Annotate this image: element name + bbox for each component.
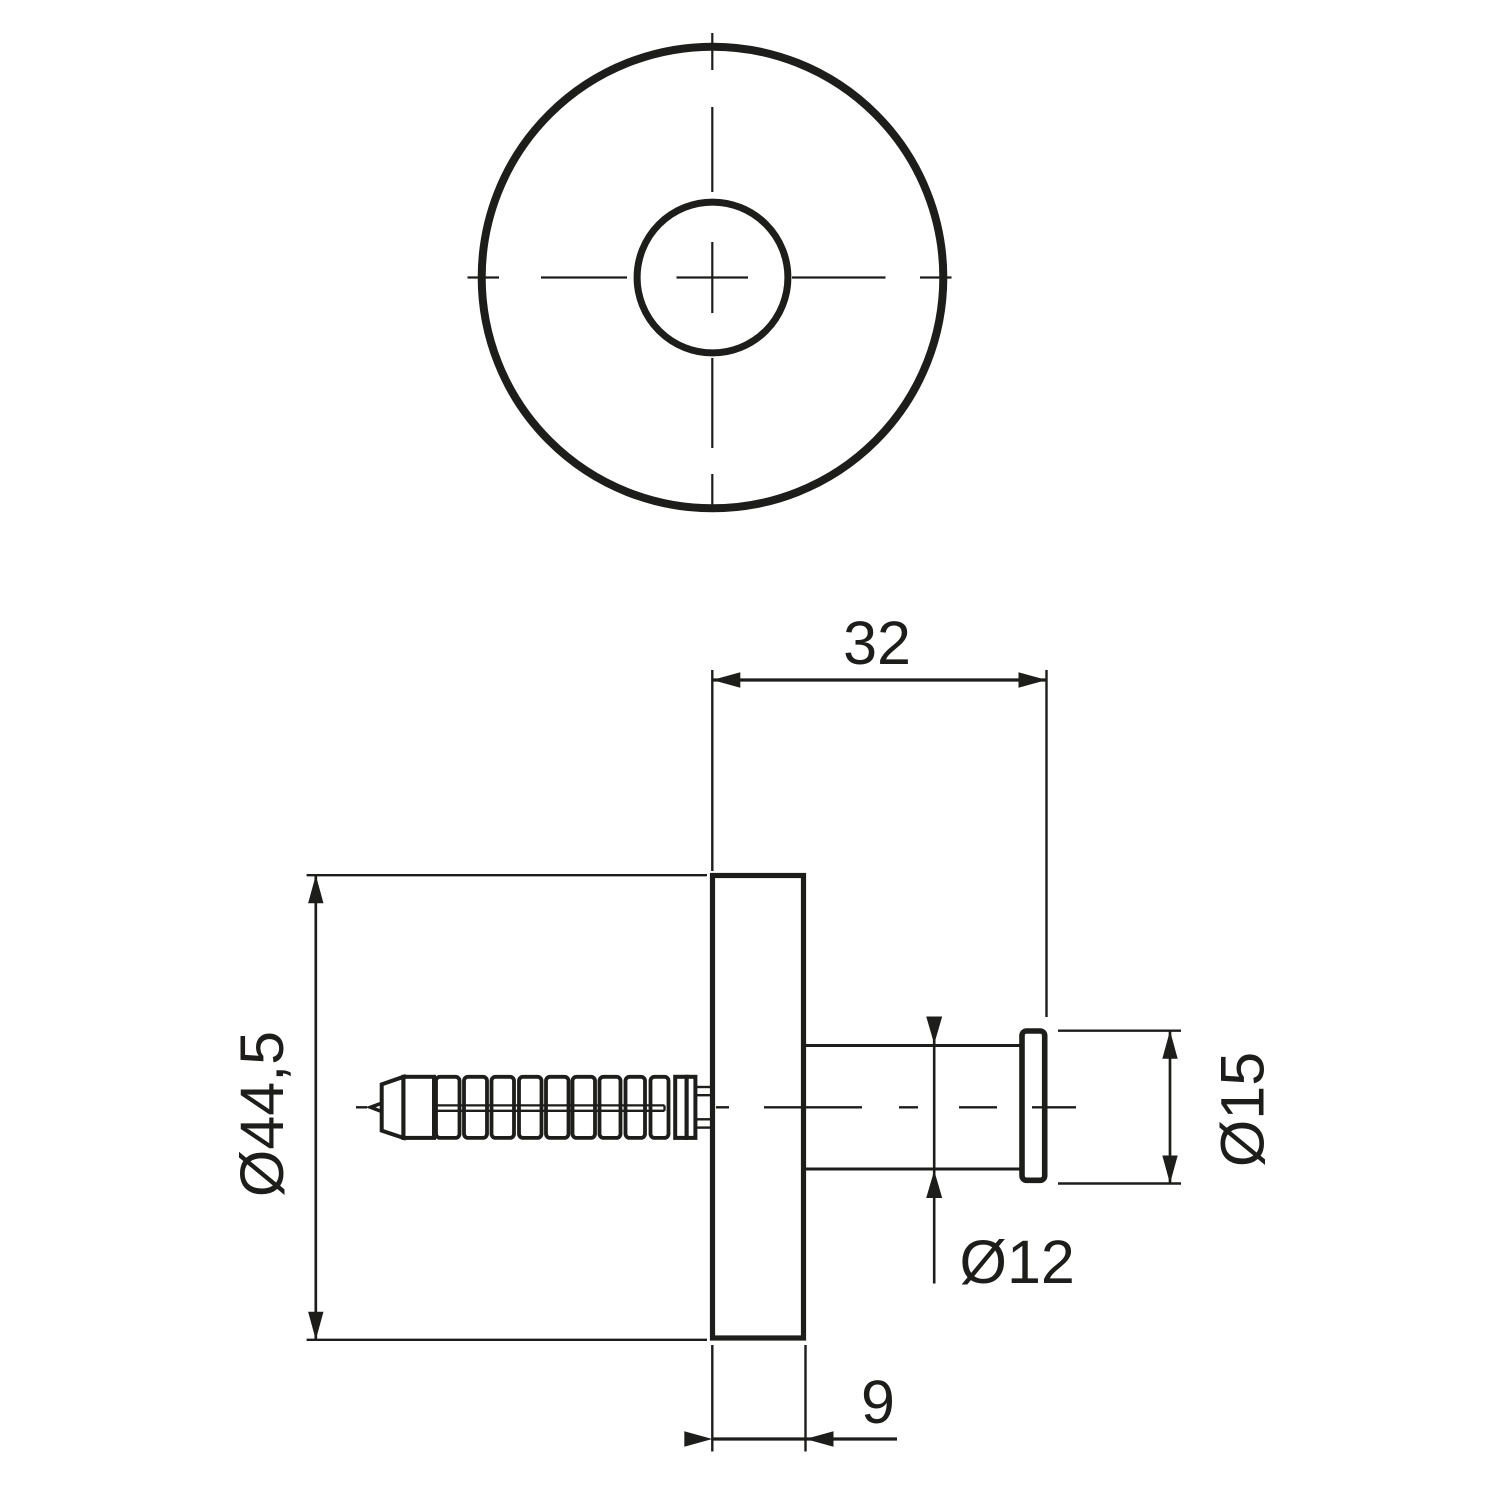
screw: thread block 1: [436, 1077, 460, 1138]
dimension D15: extension lines: [1058, 1031, 1181, 1184]
screw: thread block 3: [492, 1077, 515, 1138]
dimension D15: dimension line: [1169, 1031, 1172, 1184]
dimension D12: bottom arrowhead: [926, 1171, 942, 1199]
screw: washer plate B: [687, 1077, 696, 1138]
dimension 32: extension lines: [712, 670, 1046, 1017]
svg-text:9: 9: [861, 1368, 895, 1436]
dimension 9: extension lines: [712, 1345, 805, 1452]
screw: cone section: [382, 1077, 404, 1138]
screw: small thread lines at plate: [697, 1087, 711, 1128]
dimension 9: right arrowhead: [806, 1431, 834, 1446]
screw: core shank line through threads: [434, 1105, 665, 1110]
side view: wall flange plate: [713, 876, 804, 1339]
screw: thread block 2: [464, 1077, 487, 1138]
screw: collar cylinder: [403, 1077, 434, 1138]
dimension D12: dimension line through shaft: [933, 1017, 936, 1284]
screw: thread block 8: [626, 1077, 646, 1138]
svg-text:32: 32: [843, 609, 911, 677]
screw: thread block 9: [651, 1077, 669, 1138]
svg-text:Ø15: Ø15: [1209, 1052, 1277, 1167]
dimension D44,5: top arrowhead: [308, 875, 323, 903]
side view: knob end cap Ø15: [1022, 1031, 1045, 1180]
front view: inner hole circle: [637, 202, 788, 353]
screw: thread block 6: [573, 1077, 596, 1138]
dimension D15: bottom arrowhead: [1162, 1156, 1177, 1184]
side view horizontal centerline: [356, 1106, 1076, 1108]
dimension D15: top arrowhead: [1162, 1031, 1177, 1059]
side view: hook shaft Ø12 bottom line: [806, 1168, 1022, 1171]
svg-text:Ø12: Ø12: [960, 1228, 1075, 1296]
dimension D44,5: bottom arrowhead: [308, 1312, 323, 1340]
svg-text:Ø44,5: Ø44,5: [228, 1031, 296, 1197]
dimension 32: dimension line: [712, 678, 1046, 681]
dimension D44,5: extension lines: [307, 875, 707, 1340]
screw: thread block 7: [600, 1077, 621, 1138]
dimension D44,5: dimension line: [314, 875, 317, 1340]
dimension 9: dimension line: [712, 1437, 805, 1440]
screw: tip point: [371, 1103, 382, 1111]
dimension 32: right arrowhead: [1019, 672, 1047, 687]
front view horizontal centerline: [468, 276, 952, 278]
front view: outer flange circle: [482, 47, 944, 509]
screw: washer plate A: [675, 1077, 686, 1138]
dimension D12: top arrowhead: [926, 1017, 942, 1045]
dimension 32: left arrowhead: [712, 672, 740, 687]
front view vertical centerline: [711, 33, 713, 510]
dimension 9: right tail line: [806, 1437, 898, 1440]
screw: thread block 5: [546, 1077, 569, 1138]
screw: thread block 4: [519, 1077, 542, 1138]
side view: hook shaft Ø12 top line: [806, 1044, 1022, 1047]
dimension 9: left arrowhead: [684, 1431, 712, 1446]
